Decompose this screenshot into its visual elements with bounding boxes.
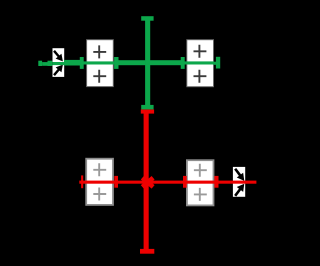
breaker bar B3 (left of M2) [181,57,185,69]
bus vertical red line [144,113,149,249]
wire green horizontal thick segments [64,60,181,66]
bus vertical green line [145,19,150,107]
fault arrow lower in F2 [232,181,248,198]
breaker bar B2 (right of M1) [114,57,118,69]
red bus bottom terminal bar [140,249,154,254]
fault arrow lower in F1 [51,62,66,77]
fault X marker at red junction [142,178,153,187]
machine box M4 (bottom-right, double plus) [187,160,214,205]
breaker bar B5 (right of M3) [114,176,118,188]
red bus top terminal bar [141,110,154,114]
short-circuit symbol box F2 (bottom-right, white) [233,167,245,197]
bus bottom terminal bar green [141,105,153,110]
breaker bar B4 (right end terminal) [216,57,220,69]
breaker bar B1 (left of M1) [80,57,84,69]
fault arrow upper in F2 [232,166,248,183]
terminal tick before F1 box [48,61,53,66]
machine box M1 (top-left, double plus) [87,40,114,87]
machine box M3 (bottom-left, double plus) [86,159,113,205]
bus top terminal bar [141,16,153,21]
short-circuit symbol box F1 (top-left, white) [53,48,65,77]
breaker bar B6 (left of M4) [183,176,187,188]
wire green horizontal thin over boxes [42,61,218,65]
wire red horizontal [79,181,256,184]
fault arrow upper in F1 [51,48,66,63]
machine box M2 (top-right, double plus) [187,40,214,87]
terminal cross bar left end red [81,175,83,188]
terminal tick left end green (node) [38,61,42,66]
breaker bar B7 (right of M4) [214,176,218,188]
